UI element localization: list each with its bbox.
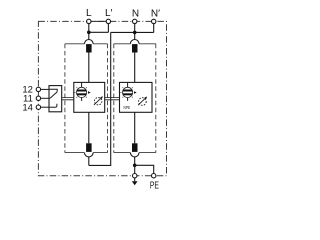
terminal earth — [133, 174, 137, 178]
wire L down from terminal — [88, 24, 90, 40]
wire top border segment L to L' — [89, 20, 109, 22]
wire module 2 bottom — [134, 112, 136, 143]
wire module 1 bottom — [88, 112, 90, 143]
wire terminal 14 — [41, 106, 53, 108]
wire N' down to bus — [153, 24, 155, 33]
enclosure border (dash-dot) — [38, 21, 166, 175]
wire N-PE gap to PE node — [134, 157, 136, 165]
svg-text:14: 14 — [22, 102, 33, 113]
mechanical linkage double line (module 1 to module 2) — [105, 97, 120, 99]
svg-text:L: L — [86, 8, 92, 19]
monitoring device module 1 (dashed circle with arrow) — [94, 96, 103, 105]
spark gap symbol module 2 — [120, 82, 133, 101]
svg-text:N′: N′ — [151, 9, 160, 20]
module 1 box (L-N spark gap unit) — [74, 82, 105, 112]
disconnector arc L (top) — [85, 39, 94, 43]
svg-text:N: N — [132, 9, 139, 20]
terminal 14 — [36, 105, 40, 109]
disconnector L (bottom) — [86, 143, 92, 152]
trigger arrow module 2 — [134, 91, 137, 94]
terminal 12 — [36, 87, 40, 91]
node PE junction — [133, 164, 137, 168]
wire L' down to bus — [107, 24, 109, 33]
wire N to module 2 — [134, 53, 136, 83]
ground symbol — [132, 178, 138, 185]
svg-text:NPE: NPE — [124, 105, 131, 110]
protection module 1 cartridge (dashed outline) — [65, 44, 108, 153]
trigger arrow module 1 — [88, 91, 91, 94]
module 2 box (N-PE spark gap unit) — [120, 82, 153, 112]
monitoring device module 2 (dashed circle with arrow) — [138, 97, 147, 106]
wire N down from terminal — [134, 24, 136, 40]
disconnector arc L (bottom) — [85, 153, 94, 157]
disconnector N (thermal disconnect) — [132, 44, 138, 52]
svg-text:L′: L′ — [105, 8, 113, 19]
disconnector arc N (top) — [130, 39, 139, 43]
terminal L' — [106, 19, 110, 23]
protection module 2 cartridge (dashed outline) — [114, 44, 156, 153]
wire terminal 12 — [41, 88, 49, 90]
disconnector N (bottom) — [132, 143, 138, 152]
node L bus junction — [87, 31, 91, 35]
node N bus junction — [133, 31, 137, 35]
wire PE node to PE terminal — [135, 165, 154, 173]
terminal 11 — [36, 96, 40, 100]
svg-text:PE: PE — [150, 180, 159, 191]
terminal N' — [152, 19, 156, 23]
mechanical linkage double line (contact to module 1) — [62, 97, 74, 99]
changeover contact 12 fixed contact — [49, 89, 57, 91]
terminal N — [133, 19, 137, 23]
wire terminal 11 — [41, 97, 51, 99]
wire L bottom to N branch — [88, 157, 90, 166]
wire L to module 1 — [88, 53, 90, 83]
spark gap symbol module 1 — [74, 82, 87, 101]
terminal L — [87, 19, 91, 23]
disconnector L (thermal disconnect) — [86, 44, 92, 52]
changeover contact 14 fixed contact — [53, 104, 57, 108]
wire PE node to earth terminal — [134, 165, 136, 173]
FM remote signalling contact box — [49, 86, 62, 112]
wire L/L' bus — [89, 31, 109, 33]
terminal PE — [152, 174, 156, 178]
wire N branch down to PE node — [89, 32, 111, 165]
wire N bus — [111, 31, 154, 33]
disconnector arc N (bottom) — [130, 153, 139, 157]
changeover contact blade — [50, 92, 57, 99]
